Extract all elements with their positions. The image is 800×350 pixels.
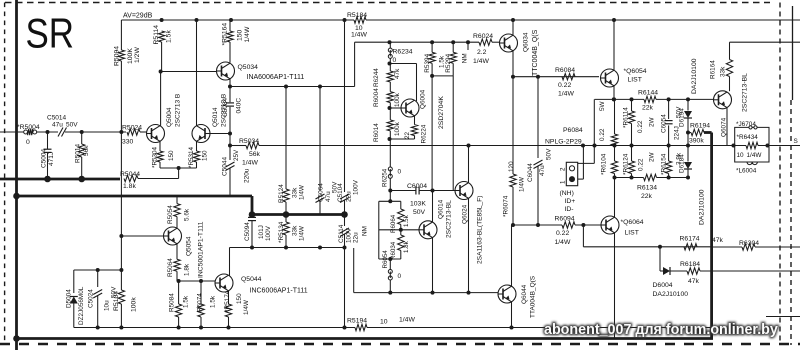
- svg-text:0.22: 0.22: [638, 158, 645, 171]
- svg-text:Q5034: Q5034: [238, 64, 259, 71]
- svg-text:D6184: D6184: [679, 154, 686, 173]
- svg-text:INC6006AP1-T111: INC6006AP1-T111: [250, 288, 308, 295]
- svg-text:2W: 2W: [649, 151, 656, 162]
- svg-text:R5294: R5294: [445, 53, 452, 72]
- svg-text:R6094: R6094: [555, 216, 575, 223]
- svg-text:1/4W: 1/4W: [242, 160, 258, 167]
- svg-text:*J6704: *J6704: [736, 121, 756, 128]
- svg-text:ID+: ID+: [565, 198, 576, 205]
- svg-text:2SC2713-BL: 2SC2713-BL: [742, 73, 749, 112]
- svg-text:SR: SR: [26, 10, 75, 57]
- svg-text:2SC2713-BL: 2SC2713-BL: [446, 200, 453, 238]
- svg-text:C5004: C5004: [41, 148, 48, 168]
- svg-text:1.5k: 1.5k: [210, 295, 217, 308]
- svg-text:Q6044: Q6044: [521, 284, 528, 304]
- svg-text:R6194: R6194: [690, 123, 710, 130]
- svg-text:*R5134: *R5134: [278, 221, 285, 243]
- svg-text:D6194: D6194: [679, 108, 686, 127]
- svg-text:INA6006AP1-T111: INA6006AP1-T111: [247, 74, 305, 81]
- svg-text:Q5044: Q5044: [241, 276, 262, 283]
- svg-text:100K: 100K: [127, 48, 134, 64]
- svg-text:R5124: R5124: [278, 184, 285, 203]
- svg-text:50V: 50V: [66, 122, 78, 129]
- svg-text:R6064: R6064: [390, 214, 397, 233]
- svg-text:*R6434: *R6434: [737, 134, 759, 141]
- svg-text:R6084: R6084: [555, 67, 575, 74]
- svg-text:R6134: R6134: [637, 185, 657, 192]
- svg-text:224J: 224J: [674, 126, 681, 140]
- svg-text:P6084: P6084: [563, 127, 583, 134]
- svg-text:47k: 47k: [712, 237, 724, 244]
- svg-text:2W: 2W: [649, 116, 656, 127]
- svg-text:Q5054: Q5054: [186, 236, 193, 256]
- svg-text:*Q6064: *Q6064: [621, 219, 644, 226]
- svg-text:DA2J10100: DA2J10100: [653, 291, 689, 298]
- svg-text:R5024: R5024: [122, 125, 142, 132]
- svg-text:R5034: R5034: [239, 138, 259, 145]
- svg-text:100V: 100V: [353, 179, 360, 195]
- svg-text:2SC2713 B: 2SC2713 B: [175, 94, 182, 127]
- svg-text:22u: 22u: [346, 191, 353, 202]
- svg-text:10u: 10u: [104, 300, 111, 311]
- svg-text:DZ2J056M0L: DZ2J056M0L: [78, 286, 85, 325]
- svg-text:C5114: C5114: [338, 224, 345, 243]
- svg-text:R5114: R5114: [153, 25, 160, 45]
- svg-text:0.22: 0.22: [558, 82, 571, 89]
- svg-text:DA2J10100: DA2J10100: [699, 189, 706, 225]
- svg-text:5.6k: 5.6k: [184, 208, 191, 221]
- svg-text:Q6074: Q6074: [721, 117, 728, 137]
- svg-text:D6004: D6004: [653, 282, 673, 289]
- svg-text:*R5004: *R5004: [17, 124, 40, 131]
- svg-text:1/4W: 1/4W: [299, 184, 306, 200]
- svg-text:22k: 22k: [642, 105, 654, 112]
- svg-text:*R5174: *R5174: [224, 290, 231, 312]
- svg-text:1/4W: 1/4W: [243, 299, 250, 315]
- svg-text:C5094: C5094: [244, 222, 251, 241]
- svg-text:C6054: C6054: [661, 114, 668, 133]
- svg-text:1/4W: 1/4W: [555, 239, 571, 246]
- svg-text:C6004: C6004: [407, 183, 427, 190]
- svg-text:R5014: R5014: [75, 143, 82, 163]
- svg-text:R6254: R6254: [382, 168, 389, 187]
- svg-text:50V: 50V: [546, 148, 553, 160]
- svg-text:*Q6054: *Q6054: [624, 68, 647, 75]
- svg-text:2SA1163-BL(TE85L_F): 2SA1163-BL(TE85L_F): [477, 196, 484, 264]
- svg-text:Q5014: Q5014: [212, 107, 219, 127]
- svg-text:50V: 50V: [111, 286, 118, 298]
- svg-text:*L6004: *L6004: [736, 168, 757, 175]
- svg-text:R5064: R5064: [167, 258, 174, 277]
- svg-text:abonent_007 для forum.onliner.: abonent_007 для forum.onliner.by: [544, 322, 778, 338]
- svg-text:*R6154: *R6154: [661, 153, 668, 175]
- svg-text:150: 150: [168, 150, 175, 161]
- svg-text:*R6074: *R6074: [503, 195, 510, 217]
- svg-text:*R5314: *R5314: [188, 146, 195, 168]
- svg-text:R6144: R6144: [638, 90, 658, 97]
- svg-text:Q5004: Q5004: [166, 107, 173, 127]
- svg-text:1/4W: 1/4W: [299, 225, 306, 241]
- svg-text:R6234: R6234: [393, 49, 413, 56]
- svg-text:C5104: C5104: [337, 183, 344, 202]
- svg-text:150: 150: [237, 29, 244, 41]
- svg-text:22: 22: [404, 131, 411, 139]
- svg-text:LIST: LIST: [625, 230, 639, 237]
- svg-text:R5194: R5194: [347, 318, 367, 325]
- svg-text:040C: 040C: [236, 98, 243, 114]
- svg-text:2.2: 2.2: [477, 49, 487, 56]
- svg-text:2: 2: [560, 167, 567, 171]
- svg-text:S: S: [794, 138, 798, 145]
- svg-text:0: 0: [393, 57, 397, 64]
- svg-text:22u: 22u: [353, 232, 360, 243]
- svg-text:R6164: R6164: [710, 60, 717, 79]
- svg-text:R6024: R6024: [473, 33, 493, 40]
- svg-text:LIST: LIST: [628, 77, 642, 84]
- svg-text:47k: 47k: [394, 68, 401, 79]
- svg-text:DA2J10100: DA2J10100: [691, 58, 698, 94]
- svg-text:AV=29dB: AV=29dB: [123, 13, 153, 20]
- svg-text:1.8k: 1.8k: [403, 240, 410, 253]
- svg-text:56k: 56k: [83, 145, 90, 156]
- svg-text:INC5001AP1-T111: INC5001AP1-T111: [198, 221, 205, 278]
- svg-text:150: 150: [236, 293, 243, 304]
- svg-text:1: 1: [560, 180, 567, 184]
- svg-text:Q6034: Q6034: [523, 32, 530, 52]
- svg-text:47k: 47k: [688, 278, 700, 285]
- svg-text:220u: 220u: [244, 168, 251, 183]
- svg-text:*R6104: *R6104: [601, 153, 608, 175]
- svg-text:25V: 25V: [233, 149, 240, 161]
- svg-text:0: 0: [398, 169, 402, 176]
- svg-text:1/4W: 1/4W: [473, 58, 489, 65]
- svg-text:0.22: 0.22: [556, 230, 569, 237]
- svg-text:103K: 103K: [410, 201, 426, 208]
- svg-text:R6174: R6174: [680, 236, 700, 243]
- svg-text:R6034: R6034: [390, 241, 397, 260]
- svg-text:1/4W: 1/4W: [747, 152, 763, 159]
- svg-text:C6044: C6044: [527, 163, 534, 182]
- svg-text:1.8k: 1.8k: [184, 263, 191, 276]
- svg-text:*R6124: *R6124: [623, 153, 630, 175]
- svg-text:(NH): (NH): [560, 190, 574, 197]
- svg-text:ID-: ID-: [565, 206, 574, 213]
- svg-text:47u: 47u: [52, 122, 63, 129]
- svg-text:10: 10: [380, 319, 388, 326]
- svg-text:1/4W: 1/4W: [519, 176, 526, 192]
- svg-text:R5084: R5084: [169, 293, 176, 312]
- svg-text:56k: 56k: [249, 151, 261, 158]
- svg-text:C5084: C5084: [222, 97, 229, 117]
- svg-text:R6014: R6014: [373, 123, 380, 142]
- svg-text:47u: 47u: [539, 165, 546, 176]
- svg-text:33k: 33k: [292, 187, 299, 198]
- svg-text:50V: 50V: [413, 209, 426, 216]
- svg-text:C5014: C5014: [47, 115, 67, 122]
- svg-text:TTA004B_Q(S: TTA004B_Q(S: [530, 275, 537, 318]
- svg-text:22k: 22k: [641, 193, 653, 200]
- svg-text:1.5k: 1.5k: [183, 295, 190, 308]
- svg-text:Q6024: Q6024: [462, 204, 469, 224]
- svg-text:100V: 100V: [265, 225, 272, 241]
- svg-text:0.22: 0.22: [599, 128, 606, 141]
- svg-text:R6054: R6054: [382, 250, 389, 269]
- svg-text:1/2W: 1/2W: [134, 47, 141, 63]
- svg-text:330: 330: [122, 139, 134, 146]
- svg-text:100V: 100V: [346, 227, 353, 243]
- svg-text:5W: 5W: [599, 100, 606, 111]
- svg-text:C5044: C5044: [222, 156, 229, 176]
- svg-text:100k: 100k: [131, 297, 138, 312]
- svg-text:TTC004B_Q(S: TTC004B_Q(S: [532, 29, 539, 76]
- svg-text:R5074: R5074: [197, 293, 204, 312]
- svg-text:R5054: R5054: [167, 205, 174, 224]
- svg-text:33k: 33k: [720, 66, 727, 77]
- svg-text:D5004: D5004: [66, 289, 73, 308]
- svg-text:100k: 100k: [394, 92, 401, 107]
- svg-text:471J: 471J: [48, 152, 55, 166]
- svg-text:1/4W: 1/4W: [558, 91, 574, 98]
- svg-text:*R5164: *R5164: [222, 23, 229, 46]
- svg-text:100k: 100k: [394, 121, 401, 136]
- svg-text:*R6114: *R6114: [623, 107, 630, 128]
- svg-text:1/4W: 1/4W: [399, 317, 415, 324]
- svg-text:390k: 390k: [689, 138, 704, 145]
- svg-text:Q6004: Q6004: [420, 89, 427, 109]
- svg-text:C5064: C5064: [318, 183, 325, 202]
- svg-text:C5024: C5024: [88, 289, 95, 308]
- svg-text:0: 0: [26, 139, 30, 146]
- svg-text:1.5k: 1.5k: [166, 30, 173, 43]
- svg-text:NM: NM: [462, 53, 469, 63]
- svg-text:R6244: R6244: [373, 68, 380, 87]
- svg-text:NPLG-2P29: NPLG-2P29: [545, 139, 582, 146]
- svg-text:0: 0: [398, 273, 402, 280]
- svg-text:R6004: R6004: [373, 88, 380, 107]
- svg-text:33k: 33k: [292, 225, 299, 236]
- svg-text:150: 150: [202, 150, 209, 161]
- svg-text:101J: 101J: [258, 225, 265, 239]
- svg-text:R6224: R6224: [421, 124, 428, 143]
- svg-text:1.5k: 1.5k: [403, 214, 410, 227]
- svg-text:10: 10: [737, 152, 745, 159]
- svg-text:1.8k: 1.8k: [123, 183, 136, 190]
- svg-text:Q6014: Q6014: [438, 199, 445, 219]
- svg-text:R5094: R5094: [114, 46, 121, 66]
- svg-text:120: 120: [508, 161, 515, 172]
- svg-text:R5044: R5044: [120, 171, 140, 178]
- svg-text:R6304: R6304: [739, 240, 759, 247]
- svg-text:R5184: R5184: [347, 12, 367, 19]
- svg-text:R6184: R6184: [680, 261, 700, 268]
- svg-text:1/4W: 1/4W: [351, 32, 367, 39]
- svg-text:1/4W: 1/4W: [244, 26, 251, 42]
- svg-text:R5394: R5394: [424, 53, 431, 72]
- svg-text:*R5304: *R5304: [152, 146, 159, 168]
- svg-text:NM: NM: [362, 226, 369, 236]
- svg-text:0.22: 0.22: [637, 120, 644, 133]
- svg-text:2SD2704K: 2SD2704K: [438, 96, 445, 129]
